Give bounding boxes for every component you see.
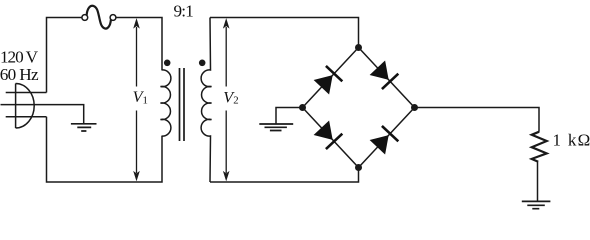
svg-text:V1: V1 [133, 88, 148, 106]
svg-text:9:1: 9:1 [174, 2, 194, 21]
svg-text:1 kΩ: 1 kΩ [553, 131, 590, 150]
svg-text:120 V: 120 V [0, 47, 39, 66]
svg-text:V2: V2 [223, 88, 238, 106]
svg-text:60 Hz: 60 Hz [0, 65, 39, 84]
